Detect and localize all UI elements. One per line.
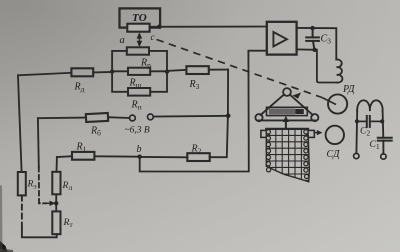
link wire with C2 — [357, 116, 382, 127]
vertical line x38: Rb corner down to wiper of Rl/Rt — [38, 118, 56, 206]
resistor Rl (vertical) — [52, 157, 72, 201]
block TO — [120, 8, 161, 27]
wire R2 right up to R3 branch — [210, 70, 228, 158]
svg-text:СД: СД — [327, 149, 341, 160]
resistor R3 — [186, 66, 208, 91]
right bracket — [149, 51, 167, 92]
wire terminal to R3 branch junction — [153, 115, 228, 118]
wire Rb left with corner — [38, 117, 86, 120]
terminal circle right 6.3V — [148, 114, 154, 120]
wire amp output bottom — [297, 48, 315, 50]
node between Rl and Rt — [54, 201, 58, 205]
wiper arrow (double-headed, between pot a and Rp) — [137, 32, 143, 47]
svg-text:Rл: Rл — [62, 181, 73, 192]
resistor Rp2 (Рп) — [128, 88, 150, 112]
wire TO right to amplifier — [150, 26, 267, 28]
terminal circle left — [354, 153, 359, 158]
svg-text:Rт: Rт — [63, 218, 74, 229]
bottom wire to Rt — [22, 229, 57, 238]
arrowhead at balance apex — [293, 93, 302, 99]
resistor bank bracket wires — [112, 51, 167, 92]
svg-text:С1: С1 — [370, 140, 380, 151]
svg-text:~6,3 В: ~6,3 В — [125, 126, 150, 136]
loop antenna coil — [357, 100, 383, 111]
middle wires — [112, 70, 128, 72]
junction dot C3 bottom — [312, 48, 316, 52]
svg-text:b: b — [137, 144, 142, 155]
loop wire from node b to amplifier input — [140, 51, 267, 172]
left base roller — [255, 114, 262, 121]
svg-text:Rэ: Rэ — [27, 180, 37, 191]
net left terminal bracket — [261, 130, 268, 137]
resistor Re (vertical) — [18, 172, 37, 195]
junction dot R3 branch / 6.3V wire — [226, 114, 231, 119]
right rail of loop — [382, 111, 385, 138]
dark page corner bottom-left — [0, 241, 8, 252]
wire amp output top to coil — [297, 28, 337, 60]
net right beads — [304, 130, 309, 179]
relay coil (inductor) — [317, 50, 343, 83]
base line — [259, 119, 316, 121]
wire R1 to node b — [94, 155, 139, 157]
svg-text:с: с — [151, 32, 155, 42]
net right terminal bracket — [307, 130, 314, 137]
node b — [138, 155, 142, 159]
net mesh — [264, 128, 310, 188]
node right of bank — [165, 69, 169, 73]
resistor Rd with wires — [18, 68, 112, 93]
resistor Rp — [127, 47, 151, 69]
net left beads — [266, 130, 270, 172]
resistor R1 — [72, 142, 94, 160]
solid pointer into РД — [322, 98, 336, 105]
left bracket — [112, 51, 128, 92]
left rail wire down to Re — [18, 75, 22, 172]
scale bar — [267, 107, 308, 115]
right base roller — [311, 114, 318, 121]
svg-text:ТО: ТО — [132, 12, 147, 24]
terminal circle right — [381, 154, 386, 159]
svg-text:а: а — [120, 35, 125, 46]
potentiometer a (slider under TO box) — [127, 24, 149, 32]
terminal circle left 6.3V — [130, 115, 136, 121]
resistor Rsh — [128, 68, 150, 90]
junction dot C3 top — [310, 26, 314, 30]
motor РД — [328, 84, 355, 114]
junction dot — [157, 25, 161, 29]
amplifier U1 — [267, 22, 297, 55]
balance triangle: apex roller — [283, 88, 291, 96]
arrow net to SD — [314, 130, 322, 135]
junction dot link right — [380, 119, 384, 123]
resistor R2 — [187, 144, 209, 162]
svg-text:РД: РД — [342, 84, 355, 95]
wire node b to R2 — [140, 156, 188, 158]
wire bank to R3 — [167, 70, 186, 71]
node left of bank — [110, 69, 114, 73]
junction dot link left — [355, 119, 359, 123]
resistor Rt (vertical) — [52, 206, 73, 235]
dashed link from c to motor РД (mechanical) — [157, 40, 337, 105]
triangle sides — [261, 95, 313, 116]
wire b row — [57, 155, 72, 158]
pointer arrow from net to scale — [283, 116, 289, 129]
svg-text:С2: С2 — [360, 127, 370, 138]
motor СД — [326, 126, 344, 160]
dashed wire below Re — [21, 196, 23, 229]
left rail of loop — [355, 111, 358, 153]
resistor Rb — [86, 113, 108, 122]
wire R3 to corner — [209, 69, 228, 71]
capacitor C1 — [378, 138, 392, 141]
capacitor C3 — [306, 28, 319, 50]
net top bar — [266, 128, 308, 130]
wire Rb to terminal — [108, 116, 130, 119]
